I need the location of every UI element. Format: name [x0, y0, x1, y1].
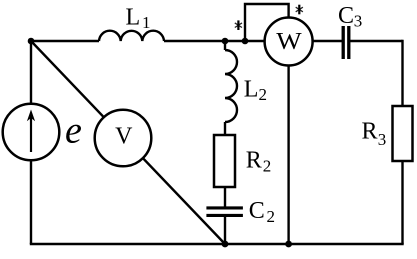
svg-text:e: e	[65, 110, 82, 152]
source E arrow	[27, 110, 35, 153]
svg-text:L: L	[244, 77, 259, 103]
svg-text:C: C	[249, 198, 265, 224]
svg-text:R: R	[246, 148, 262, 174]
junction dot at wattmeter voltage tap	[242, 38, 249, 45]
wire left side	[30, 41, 32, 244]
label R2	[246, 148, 272, 176]
svg-text:W: W	[276, 29, 302, 55]
wire bottom	[30, 243, 404, 245]
node A junction dot top-left	[28, 38, 35, 45]
svg-text:R: R	[362, 119, 378, 145]
label C2	[249, 198, 275, 226]
node B junction dot bottom middle	[222, 241, 229, 248]
svg-text:3: 3	[354, 12, 363, 31]
wire wattmeter to bottom wire	[287, 60, 289, 244]
svg-text:1: 1	[142, 13, 151, 32]
wire diagonal from node A to node B	[31, 41, 225, 244]
inductor L2	[225, 50, 237, 122]
wire C2 to bottom node	[224, 215, 226, 245]
label L1	[126, 4, 151, 32]
wire L2 to C2 through R2	[224, 122, 226, 208]
svg-text:2: 2	[267, 207, 276, 226]
label R3	[362, 119, 387, 149]
capacitor C2 plates	[206, 208, 243, 216]
wire wattmeter to C3	[310, 40, 342, 42]
svg-text:V: V	[115, 124, 133, 150]
wire L1 to wattmeter	[164, 40, 266, 42]
inductor L1	[99, 31, 164, 41]
svg-text:2: 2	[263, 156, 272, 175]
wire wattmeter voltage coil bracket	[245, 4, 289, 41]
capacitor C3 plates	[343, 26, 349, 59]
svg-text:3: 3	[378, 130, 387, 149]
wire right side	[401, 40, 403, 244]
svg-text:2: 2	[259, 85, 268, 104]
resistor R3 body	[393, 106, 413, 161]
wire top-left to L1	[31, 40, 99, 42]
wire C3 to top-right corner	[349, 40, 403, 42]
asterisk at wattmeter current terminal	[296, 5, 303, 15]
asterisk at wattmeter voltage terminal	[235, 20, 242, 30]
label L2	[244, 77, 267, 105]
svg-text:C: C	[338, 3, 354, 29]
wire node to L2	[224, 41, 226, 50]
wattmeter W circle	[265, 18, 313, 66]
source E circle	[3, 104, 60, 161]
junction dot bottom wattmeter branch	[285, 241, 292, 248]
junction dot at L2 branch	[222, 38, 229, 45]
svg-text:L: L	[126, 4, 141, 30]
resistor R2 body	[214, 135, 235, 187]
label C3	[338, 3, 362, 31]
voltmeter V circle	[95, 110, 152, 167]
